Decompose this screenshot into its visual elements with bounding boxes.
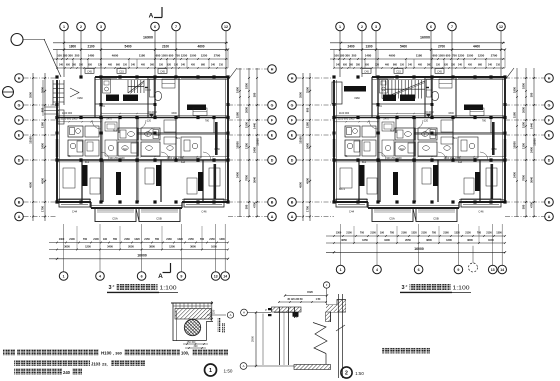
svg-text:, 360: , 360 <box>113 351 123 356</box>
svg-text:1960 250 1900: 1960 250 1900 <box>444 157 461 160</box>
svg-text:3400: 3400 <box>384 238 390 242</box>
svg-text:650: 650 <box>88 63 93 66</box>
dim line row1 majors <box>330 49 505 51</box>
svg-text:1: 1 <box>63 25 65 29</box>
stair arrow <box>145 89 151 91</box>
interior wall col stair right <box>424 77 426 118</box>
door arcs <box>369 120 378 129</box>
svg-text:1900: 1900 <box>236 87 240 93</box>
bathroom cluster left <box>68 126 83 137</box>
svg-text:4a2: 4a2 <box>181 161 186 164</box>
svg-text:1320: 1320 <box>134 238 140 241</box>
interior wall col porch <box>371 77 373 118</box>
svg-text:G: G <box>548 103 551 107</box>
svg-text:7501: 7501 <box>99 105 105 108</box>
interior wall big room left <box>178 77 180 118</box>
svg-text:1: 1 <box>339 25 341 29</box>
svg-text:7800: 7800 <box>245 175 249 181</box>
svg-text:1700: 1700 <box>306 206 310 212</box>
svg-text:1200: 1200 <box>169 244 175 248</box>
grid bubbles bottom row <box>336 265 345 274</box>
svg-text:2150: 2150 <box>486 232 492 235</box>
living room label block <box>464 105 483 111</box>
svg-text:2150: 2150 <box>209 238 215 241</box>
vertical dim line left inner <box>44 73 46 221</box>
svg-text:2700: 2700 <box>438 44 445 48</box>
wardrobe strip lower right <box>214 164 217 199</box>
svg-text:2790: 2790 <box>214 53 221 57</box>
svg-text:780: 780 <box>155 238 160 241</box>
svg-text:1320: 1320 <box>454 232 460 235</box>
interior wall row E partial <box>414 132 505 134</box>
svg-text:360: 360 <box>427 63 432 66</box>
svg-text:1960: 1960 <box>354 97 360 100</box>
svg-text:400: 400 <box>141 63 146 66</box>
interior wall bedroom partitions <box>358 160 360 202</box>
detail 2 vertical dim <box>255 313 257 367</box>
kitchen fixtures <box>382 122 394 131</box>
grid bubbles top row <box>60 22 69 31</box>
detail 1 bottom mini dims <box>183 343 208 345</box>
window bay bottom left <box>336 199 367 207</box>
detail 1 axis bubble A <box>227 312 233 318</box>
interior mini dim line c <box>378 113 432 115</box>
svg-text:1180: 1180 <box>416 53 423 57</box>
svg-text:240: 240 <box>59 63 64 66</box>
svg-text:H: H <box>271 67 274 71</box>
grid bubbles bottom row <box>59 272 68 281</box>
vertical dim line left inner <box>309 73 311 221</box>
svg-text:C15: C15 <box>119 69 124 73</box>
svg-text:H100: H100 <box>101 351 112 356</box>
svg-text:D: D <box>271 158 274 162</box>
storage room label <box>344 86 366 92</box>
svg-text:1250: 1250 <box>201 53 208 57</box>
bedroom label vertical 1 <box>83 165 88 186</box>
detail 2 wall step top right <box>326 300 346 313</box>
svg-text:120: 120 <box>375 63 380 66</box>
detail 2 axis bubble top <box>323 282 329 288</box>
svg-text:2600: 2600 <box>245 107 249 113</box>
svg-text:1780: 1780 <box>214 148 220 151</box>
svg-text:13500: 13500 <box>29 136 33 144</box>
svg-text:A: A <box>149 13 154 20</box>
stair diagonal break <box>128 81 144 93</box>
svg-text:4900: 4900 <box>112 53 119 57</box>
svg-text:6: 6 <box>154 25 156 29</box>
svg-text:1050: 1050 <box>161 53 168 57</box>
svg-text:A: A <box>158 273 163 280</box>
svg-text:14: 14 <box>500 268 504 272</box>
detail 2 wall right edge <box>330 312 332 322</box>
kitchen fixtures <box>105 122 117 131</box>
svg-text:980: 980 <box>201 63 206 66</box>
detail 1 hatched band <box>175 309 211 320</box>
window tag C45 b <box>435 69 444 74</box>
svg-text:4500: 4500 <box>29 182 33 188</box>
svg-text:4900: 4900 <box>389 53 396 57</box>
svg-text:900: 900 <box>41 107 45 112</box>
window hatch strip right rooms <box>492 122 495 155</box>
svg-text:1960: 1960 <box>77 97 83 100</box>
svg-text:360: 360 <box>150 63 155 66</box>
grid bubbles left column <box>288 74 297 83</box>
svg-text:H: H <box>18 76 21 80</box>
svg-text:C5B: C5B <box>433 217 439 221</box>
dim ticks row3 fine <box>334 67 505 69</box>
svg-text:G: G <box>291 103 294 107</box>
svg-text:16000: 16000 <box>137 254 147 258</box>
interior mini dim line a <box>57 121 101 123</box>
window black strip right wall <box>504 139 506 157</box>
svg-text:2150: 2150 <box>465 232 471 235</box>
svg-text:3800: 3800 <box>149 244 155 248</box>
svg-text:1: 1 <box>209 368 212 374</box>
detail 2 bolt cluster <box>293 311 299 317</box>
svg-text:1300: 1300 <box>154 134 160 137</box>
svg-text:5400: 5400 <box>400 44 407 48</box>
svg-text:950: 950 <box>446 53 451 57</box>
svg-text:240: 240 <box>336 63 341 66</box>
svg-text:2100: 2100 <box>346 232 352 235</box>
grid bubbles right column <box>268 65 277 74</box>
svg-text:M1: M1 <box>113 130 117 133</box>
interior wall col stair right <box>147 77 149 118</box>
svg-text:620: 620 <box>167 63 172 66</box>
svg-text:2160: 2160 <box>401 232 407 235</box>
svg-text:C45: C45 <box>160 69 165 73</box>
svg-text:1100 900: 1100 900 <box>62 112 73 115</box>
svg-text:100: 100 <box>57 53 62 57</box>
svg-text:1440: 1440 <box>530 123 534 129</box>
svg-text:240: 240 <box>181 63 186 66</box>
svg-text:7800: 7800 <box>522 175 526 181</box>
svg-text:2400: 2400 <box>253 147 257 153</box>
svg-text:1500: 1500 <box>190 53 197 57</box>
detail 1 fixture leader texts <box>218 318 221 332</box>
window top wall 2 <box>458 78 502 80</box>
svg-text:D: D <box>18 158 21 162</box>
svg-text:3400: 3400 <box>107 244 113 248</box>
window bay bottom right <box>461 199 501 207</box>
bathroom cluster left <box>345 126 360 137</box>
grid bubbles right column <box>545 74 554 83</box>
svg-text:1500: 1500 <box>522 122 526 128</box>
svg-text:1800: 1800 <box>522 83 526 89</box>
svg-text:1000: 1000 <box>211 244 217 248</box>
svg-text:750: 750 <box>452 53 457 57</box>
svg-text:150: 150 <box>174 63 179 66</box>
svg-text:900 250 2100: 900 250 2100 <box>386 157 402 160</box>
svg-text:1900: 1900 <box>513 87 517 93</box>
svg-text:300: 300 <box>349 63 354 66</box>
svg-text:MC1: MC1 <box>339 187 345 191</box>
svg-text:7: 7 <box>175 25 177 29</box>
bottom grid connectors <box>340 224 342 252</box>
svg-text:15800: 15800 <box>236 141 240 149</box>
svg-text:2100: 2100 <box>69 238 75 241</box>
svg-text:C5A: C5A <box>112 217 118 221</box>
svg-text:180: 180 <box>340 53 345 57</box>
interior mini dim line a <box>334 121 378 123</box>
svg-text:15800: 15800 <box>256 138 260 146</box>
svg-text:190: 190 <box>103 238 108 241</box>
svg-text:5400: 5400 <box>124 44 131 48</box>
svg-text:1100 900: 1100 900 <box>339 112 350 115</box>
bottom fine dim row <box>49 242 228 244</box>
detail 1 bottom edge <box>173 340 207 342</box>
stair mid rail <box>128 86 144 88</box>
svg-text:1300: 1300 <box>245 143 249 149</box>
detail 1 right dim line <box>211 301 213 321</box>
svg-text:180: 180 <box>63 53 68 57</box>
window black strip right wall <box>227 139 229 157</box>
svg-text:1:50: 1:50 <box>224 368 233 373</box>
svg-text:3: 3 <box>100 25 102 29</box>
svg-text:2400: 2400 <box>347 44 354 48</box>
dim line row2 minors <box>53 58 228 60</box>
svg-text:12: 12 <box>224 25 228 29</box>
svg-text:4600: 4600 <box>197 44 204 48</box>
svg-text:1470: 1470 <box>106 117 112 120</box>
bedroom label vertical 3 <box>433 165 438 186</box>
svg-text:150: 150 <box>451 63 456 66</box>
svg-text:7: 7 <box>451 25 453 29</box>
svg-text:1300: 1300 <box>365 44 372 48</box>
notes line 2 <box>14 360 90 366</box>
svg-text:1520: 1520 <box>307 290 313 294</box>
interior wall col 6 <box>154 77 156 118</box>
upper right room fixtures <box>439 79 452 88</box>
svg-text:C46: C46 <box>201 210 207 214</box>
room label blocks hygiene/stair <box>383 95 396 102</box>
notes line 1 <box>3 349 15 355</box>
svg-text:C45: C45 <box>437 69 442 73</box>
entry steps outside <box>52 80 54 105</box>
interior mini dim line b <box>141 156 228 158</box>
door arcs <box>92 120 101 129</box>
svg-text:3b1: 3b1 <box>362 161 367 164</box>
upper window bay top-left <box>332 82 342 104</box>
svg-text:2100: 2100 <box>162 44 169 48</box>
svg-text:4: 4 <box>99 274 101 278</box>
svg-text:1580: 1580 <box>513 112 517 118</box>
bedroom label vertical 4 <box>198 172 203 191</box>
svg-text:4700: 4700 <box>530 202 534 208</box>
svg-text:2050: 2050 <box>128 244 134 248</box>
window tag C15 <box>394 69 403 74</box>
svg-text:150: 150 <box>212 309 216 314</box>
svg-text:980: 980 <box>478 63 483 66</box>
svg-text:650: 650 <box>66 63 71 66</box>
detail 1 tick comb <box>175 303 177 309</box>
living room label block <box>187 105 206 111</box>
svg-text:13: 13 <box>491 268 495 272</box>
svg-text:3650: 3650 <box>341 238 347 242</box>
svg-text:A: A <box>18 215 21 219</box>
svg-text:1300: 1300 <box>59 238 65 241</box>
svg-text:1300: 1300 <box>336 232 342 235</box>
svg-text:16000: 16000 <box>420 35 430 39</box>
svg-text:C46: C46 <box>478 210 484 214</box>
svg-text:1380: 1380 <box>41 122 45 128</box>
upper right room fixtures <box>162 79 175 88</box>
detail 2 fitting marks <box>268 308 272 310</box>
svg-text:240: 240 <box>488 63 493 66</box>
outer wall bottom <box>57 201 91 203</box>
window top wall 1 <box>103 78 117 80</box>
window tag C45 a <box>362 69 371 74</box>
window black strip left wall <box>56 139 58 157</box>
balcony left <box>95 208 136 222</box>
svg-text:1440: 1440 <box>253 123 257 129</box>
svg-text:120: 120 <box>147 120 152 123</box>
svg-text:2100 900 1960: 2100 900 1960 <box>61 117 78 120</box>
svg-text:2400: 2400 <box>530 147 534 153</box>
svg-text:600: 600 <box>433 53 438 57</box>
svg-text:3640: 3640 <box>530 177 534 183</box>
svg-text:2600: 2600 <box>522 107 526 113</box>
svg-text:860: 860 <box>393 63 398 66</box>
svg-text:2150: 2150 <box>188 238 194 241</box>
svg-text:2160: 2160 <box>443 232 449 235</box>
svg-text:1300: 1300 <box>219 238 225 241</box>
svg-text:A: A <box>271 215 274 219</box>
svg-text:G: G <box>271 103 274 107</box>
dim line row2 minors <box>330 58 505 60</box>
svg-text:1:50: 1:50 <box>316 298 321 301</box>
svg-text:4500: 4500 <box>306 178 310 184</box>
interior wall row E partial <box>137 132 228 134</box>
bedroom label vertical 2 <box>393 172 398 195</box>
outer wall right <box>504 77 506 202</box>
interior wall row G <box>57 117 228 119</box>
bedroom furniture <box>340 168 352 188</box>
svg-text:1500: 1500 <box>467 53 474 57</box>
svg-text:3300: 3300 <box>448 112 454 115</box>
svg-text:G: G <box>18 103 21 107</box>
svg-text:1320: 1320 <box>411 232 417 235</box>
detail 2 axis bubble A <box>240 363 247 370</box>
svg-text:2: 2 <box>80 25 82 29</box>
detail 1 left wall <box>172 303 174 341</box>
living room sofa <box>193 108 207 116</box>
svg-text:1800: 1800 <box>245 83 249 89</box>
svg-text:2500: 2500 <box>41 87 45 93</box>
window bay bottom right <box>184 199 224 207</box>
svg-text:2100: 2100 <box>93 238 99 241</box>
svg-text:4: 4 <box>376 268 378 272</box>
interior wall row G2 partial <box>372 103 432 105</box>
svg-text:A: A <box>243 364 245 368</box>
svg-text:1470: 1470 <box>383 117 389 120</box>
svg-text:J103: J103 <box>91 361 101 366</box>
detail 2 bottom slab hatch <box>294 365 331 370</box>
interior wall col mid lower <box>136 118 138 203</box>
svg-text:150: 150 <box>123 63 128 66</box>
stair treads <box>381 80 383 99</box>
interior wall bedroom partitions <box>81 160 83 202</box>
bedroom label vertical 1 <box>360 165 365 186</box>
svg-text:240: 240 <box>131 63 136 66</box>
svg-text:C5B: C5B <box>156 217 162 221</box>
dashed revision circle <box>469 263 478 272</box>
svg-text:1:50: 1:50 <box>355 371 364 376</box>
svg-text:B: B <box>291 200 294 204</box>
svg-text:3800: 3800 <box>426 238 432 242</box>
svg-text:600: 600 <box>156 53 161 57</box>
bottom grid connectors <box>63 224 65 259</box>
svg-text:4500: 4500 <box>41 178 45 184</box>
entry door triangle <box>70 88 79 97</box>
svg-text:950: 950 <box>169 53 174 57</box>
svg-text:4400: 4400 <box>473 44 480 48</box>
svg-text:240: 240 <box>211 63 216 66</box>
svg-text:C5A: C5A <box>389 217 395 221</box>
outer wall left <box>333 80 335 202</box>
svg-text:C44: C44 <box>72 210 78 214</box>
svg-text:300: 300 <box>345 53 350 57</box>
svg-text:6: 6 <box>418 268 420 272</box>
detail 1 drain pipe circle <box>184 319 200 335</box>
outer wall top <box>372 76 505 78</box>
outer wall bottom <box>334 201 368 203</box>
bottom mid dim row <box>326 242 505 244</box>
balcony right <box>416 208 457 222</box>
svg-text:300: 300 <box>194 345 199 348</box>
svg-text:210: 210 <box>496 63 501 66</box>
svg-text:300: 300 <box>72 63 77 66</box>
svg-text:4a2: 4a2 <box>458 161 463 164</box>
svg-text:240: 240 <box>63 370 71 375</box>
svg-text:240: 240 <box>408 63 413 66</box>
svg-text:190: 190 <box>380 232 385 235</box>
bathroom cluster right <box>141 128 160 140</box>
svg-text:4500: 4500 <box>299 182 303 188</box>
svg-text:1250: 1250 <box>181 53 188 57</box>
svg-text:280: 280 <box>79 63 84 66</box>
detail 1 inner step <box>207 322 214 341</box>
svg-text:C44: C44 <box>349 210 355 214</box>
wardrobe strip lower right <box>491 164 494 199</box>
svg-text:30 120 240 60: 30 120 240 60 <box>287 298 303 301</box>
vertical dim lines right <box>516 68 518 217</box>
bottom mid dim row <box>49 249 228 251</box>
svg-text:650: 650 <box>365 63 370 66</box>
detail 2 zigzag break <box>313 323 327 354</box>
svg-text:450: 450 <box>191 63 196 66</box>
interior wall big room left <box>455 77 457 118</box>
svg-text:12: 12 <box>499 25 503 29</box>
bathroom cluster mid <box>395 128 415 140</box>
svg-text:780: 780 <box>477 232 482 235</box>
svg-text:1250: 1250 <box>458 53 465 57</box>
svg-text:1:100: 1:100 <box>453 286 470 292</box>
vertical dim lines right <box>239 68 241 217</box>
interior wall mid col 3 <box>377 77 379 202</box>
detail 1 leader to axis A <box>207 314 226 316</box>
interior mini dim line c <box>101 113 155 115</box>
svg-text:300: 300 <box>68 53 73 57</box>
svg-text:14: 14 <box>223 274 227 278</box>
porch lower steps <box>44 106 59 108</box>
svg-text:1780: 1780 <box>491 148 497 151</box>
svg-text:400: 400 <box>418 63 423 66</box>
svg-text:3b1: 3b1 <box>85 161 90 164</box>
kitchen block right <box>458 137 478 158</box>
svg-text:3600: 3600 <box>467 238 473 242</box>
vertical dim line left outer <box>32 73 34 221</box>
